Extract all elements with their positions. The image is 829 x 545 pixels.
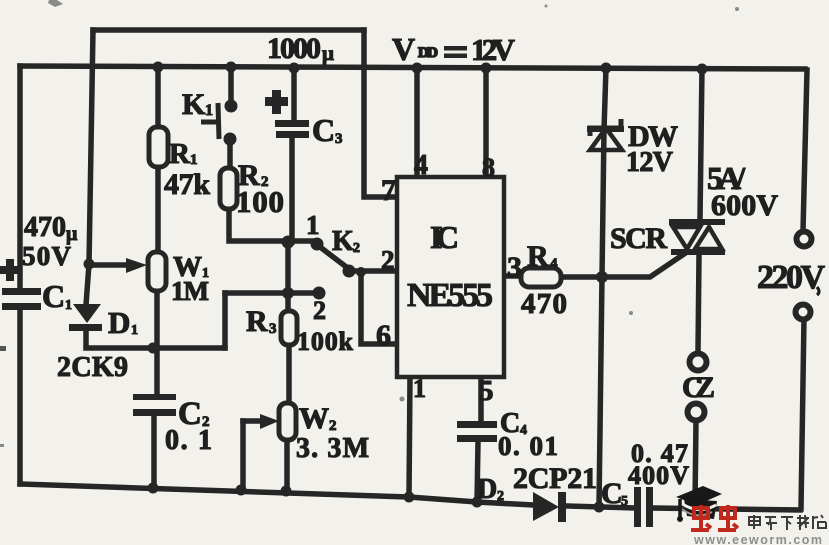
svg-text:R: R [527, 240, 549, 273]
svg-text:1: 1 [306, 210, 320, 240]
svg-text:1000: 1000 [267, 32, 321, 65]
svg-text:CZ: CZ [682, 371, 715, 404]
svg-text:C: C [601, 477, 623, 510]
svg-text:4: 4 [550, 256, 558, 272]
svg-text:5: 5 [621, 494, 628, 509]
svg-text:D: D [108, 305, 130, 340]
svg-text:600V: 600V [711, 189, 778, 222]
svg-text:3: 3 [269, 321, 277, 337]
svg-text:100k: 100k [297, 327, 354, 356]
svg-text:V: V [392, 31, 415, 67]
svg-text:7: 7 [381, 174, 396, 207]
svg-text:1M: 1M [171, 276, 209, 306]
svg-text:5: 5 [479, 375, 494, 407]
svg-text:2: 2 [497, 489, 504, 504]
svg-text:2: 2 [353, 241, 360, 256]
svg-text:DD: DD [418, 45, 438, 61]
svg-text:C: C [42, 278, 65, 314]
svg-text:1: 1 [65, 298, 72, 313]
svg-text:1: 1 [205, 102, 213, 119]
svg-text:SCR: SCR [610, 222, 667, 255]
svg-text:NE555: NE555 [407, 277, 493, 314]
svg-text:12V: 12V [626, 147, 673, 178]
svg-text:3: 3 [335, 131, 343, 147]
svg-text:12V: 12V [471, 32, 516, 67]
svg-text:3: 3 [507, 251, 522, 284]
svg-text:3. 3M: 3. 3M [296, 433, 369, 464]
svg-text:www.eeworm.com: www.eeworm.com [693, 533, 822, 545]
svg-text:R: R [169, 138, 191, 170]
svg-text:K: K [182, 88, 206, 121]
svg-text:2: 2 [313, 296, 326, 325]
svg-text:50V: 50V [22, 241, 72, 271]
svg-text:0. 1: 0. 1 [165, 425, 212, 456]
svg-text:470: 470 [24, 212, 66, 243]
svg-text:R: R [246, 305, 268, 338]
svg-text:K: K [332, 226, 354, 257]
svg-text:400V: 400V [628, 461, 689, 490]
svg-text:4: 4 [414, 150, 428, 181]
svg-text:2CP21: 2CP21 [513, 462, 597, 495]
svg-text:470: 470 [521, 288, 567, 320]
svg-text:D: D [477, 474, 497, 505]
svg-text:100: 100 [236, 184, 284, 219]
svg-text:1: 1 [413, 374, 426, 403]
svg-text:8: 8 [482, 153, 495, 182]
svg-text:220V: 220V [757, 259, 825, 296]
svg-text:2: 2 [381, 245, 395, 275]
svg-text:IC: IC [430, 219, 459, 255]
svg-text:47k: 47k [164, 168, 210, 201]
svg-text:W: W [299, 402, 329, 435]
svg-text:2CK9: 2CK9 [57, 352, 128, 383]
svg-text:C: C [312, 112, 335, 148]
svg-text:6: 6 [376, 319, 391, 352]
svg-text:1: 1 [131, 323, 138, 338]
svg-text:μ: μ [322, 41, 334, 65]
svg-text:2: 2 [329, 418, 337, 434]
svg-text:1: 1 [190, 152, 198, 168]
